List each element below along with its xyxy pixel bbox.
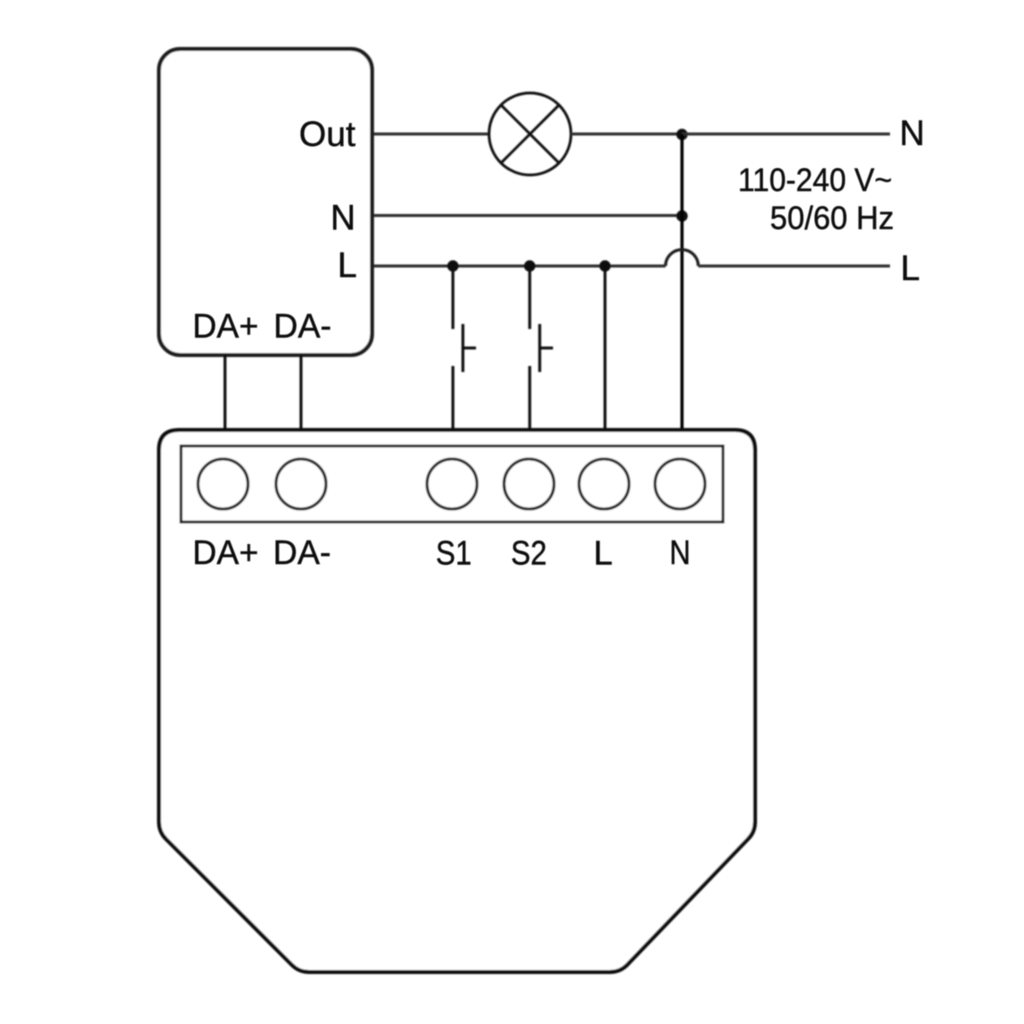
svg-text:DA+: DA+ <box>193 308 259 346</box>
wire lamp to node N1 <box>571 133 682 136</box>
terminal hole DA- <box>276 459 326 509</box>
terminal hole DA+ <box>198 459 248 509</box>
node N2 junction <box>676 210 687 221</box>
terminal hole S1 <box>427 459 477 509</box>
node L junction <box>599 260 610 271</box>
terminal hole S2 <box>504 459 554 509</box>
node N1 junction <box>676 129 687 140</box>
svg-text:DA+: DA+ <box>193 534 259 572</box>
wire S2 upper <box>528 266 531 329</box>
pushbutton S1 <box>463 324 476 372</box>
wire S2 lower <box>528 366 531 430</box>
svg-text:L: L <box>594 535 613 573</box>
svg-text:DA-: DA- <box>274 308 332 346</box>
svg-text:L: L <box>338 246 357 285</box>
wire L hop to supply L <box>698 265 890 268</box>
terminal hole N <box>655 459 705 509</box>
pushbutton S2 <box>540 324 553 372</box>
svg-text:N: N <box>900 114 925 153</box>
wire L from driver to hop <box>374 265 666 268</box>
svg-text:L: L <box>901 249 920 288</box>
wire DA- driver to terminal <box>300 355 303 430</box>
svg-text:50/60 Hz: 50/60 Hz <box>770 200 894 236</box>
terminal hole L <box>579 459 629 509</box>
svg-text:S1: S1 <box>436 535 472 573</box>
DALI driver box U1 <box>159 49 372 355</box>
node S1 junction <box>447 260 458 271</box>
wire hop over N wire <box>666 250 699 266</box>
svg-text:110-240 V~: 110-240 V~ <box>738 162 892 198</box>
svg-text:N: N <box>670 534 691 572</box>
wire Out from driver to lamp <box>374 133 489 136</box>
relay device body <box>159 430 755 972</box>
svg-text:N: N <box>331 199 356 238</box>
wire L node to terminal L <box>604 266 607 430</box>
wire N from driver to node N2 <box>374 214 682 217</box>
wire S1 lower <box>451 366 454 430</box>
svg-text:S2: S2 <box>511 535 547 573</box>
svg-text:DA-: DA- <box>273 534 331 572</box>
wire S1 upper <box>451 266 454 329</box>
wire DA+ driver to terminal <box>224 355 227 430</box>
wire node N1 to supply N <box>682 133 890 136</box>
terminal strip <box>181 446 723 522</box>
svg-text:Out: Out <box>299 115 356 154</box>
lamp LA1 <box>489 93 571 175</box>
node S2 junction <box>524 260 535 271</box>
wire N vertical to terminal N <box>680 134 683 430</box>
